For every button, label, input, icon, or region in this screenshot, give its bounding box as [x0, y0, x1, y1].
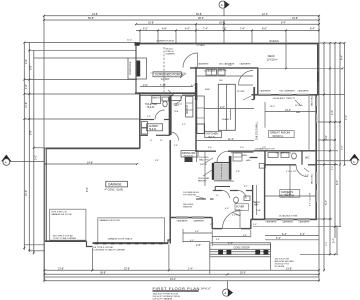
svg-text:CASEMENT: CASEMENT: [282, 221, 294, 224]
svg-text:24'-8": 24'-8": [92, 13, 98, 16]
svg-text:3'-4": 3'-4": [216, 239, 220, 241]
bedroom dim line y196: [265, 195, 316, 197]
left dimension line x24: [23, 43, 25, 251]
garage door opening band: [93, 242, 169, 244]
section marker bottom: circle and solid triangle: [223, 289, 230, 296]
mud wing north wall: [140, 94, 173, 96]
porch columns: [218, 250, 223, 255]
svg-text:8'-4": 8'-4": [310, 28, 315, 31]
svg-text:9'-0" CLG TYP: 9'-0" CLG TYP: [310, 192, 312, 206]
hall and foyer extra walls: [215, 186, 230, 188]
porch dim line y235.5: [265, 235, 319, 237]
svg-text:CASEMENT: CASEMENT: [299, 221, 311, 224]
wall corner block top-left of porch: [135, 42, 140, 45]
bench by porch wall: [152, 96, 161, 104]
bedroom dim line y127: [265, 111, 316, 113]
tick marks on dimension lines: [23, 15, 345, 282]
svg-text:1'-6": 1'-6": [253, 224, 257, 226]
svg-text:9' CLG TYP: 9' CLG TYP: [286, 171, 297, 173]
svg-text:4'-8": 4'-8": [25, 84, 28, 89]
svg-text:CASEMENT: CASEMENT: [193, 219, 205, 222]
svg-text:21'-8": 21'-8": [58, 268, 64, 271]
svg-text:2X6 STUD WALL: 2X6 STUD WALL: [256, 121, 259, 140]
svg-text:12'X10'+/-: 12'X10'+/-: [267, 57, 279, 61]
hall door arc: [217, 151, 228, 162]
porch interior dim y86.5: [140, 86, 193, 88]
exterior wall top: [135, 43, 319, 45]
porch door arc: [183, 53, 198, 68]
bottom dimension line 2: [44, 273, 319, 275]
svg-text:4'-8": 4'-8": [162, 28, 167, 31]
svg-text:RAILING: RAILING: [270, 40, 279, 43]
svg-text:TILE FL: TILE FL: [147, 107, 156, 109]
rotated right dim texts: [129, 55, 348, 246]
extra center dim lines: [183, 96, 309, 246]
svg-text:2'-8": 2'-8": [155, 160, 159, 162]
right extension line y43: [319, 42, 345, 44]
svg-text:GARAGE DR DOOR: GARAGE DR DOOR: [51, 213, 72, 216]
svg-text:TILE FL: TILE FL: [208, 136, 217, 138]
right extension line y66: [259, 68, 343, 70]
svg-text:1X4 AS-BUILT TRIM TYP: 1X4 AS-BUILT TRIM TYP: [273, 97, 296, 100]
svg-text:3'-6": 3'-6": [208, 147, 212, 149]
leader note lines center: [168, 73, 309, 216]
svg-text:8'-4": 8'-4": [281, 21, 286, 24]
dimension line top third: [136, 23, 319, 25]
svg-text:LINEN: LINEN: [241, 155, 247, 157]
dining built-in dark block: [185, 157, 193, 162]
toilet fixture: [162, 97, 169, 101]
dishwasher: [218, 70, 225, 76]
svg-text:7'-4": 7'-4": [203, 28, 208, 31]
svg-text:6'-4": 6'-4": [282, 233, 287, 236]
great room west opening wall: [253, 87, 255, 100]
svg-text:4'-0": 4'-0": [331, 110, 334, 115]
svg-text:FAN: FAN: [296, 111, 300, 114]
refrigerator: [197, 124, 205, 134]
hall upper wall segment: [250, 157, 258, 159]
mud wing west wall: [139, 93, 141, 148]
svg-text:7'-4": 7'-4": [240, 28, 245, 31]
extension line y79.5: [24, 79, 137, 81]
svg-text:5'-4": 5'-4": [325, 200, 328, 205]
svg-text:A: A: [5, 161, 7, 165]
left dimension line x29: [28, 43, 30, 253]
svg-text:2'-0": 2'-0": [143, 84, 148, 87]
label screened porch: [153, 72, 183, 81]
extension verticals top: [139, 30, 141, 43]
pantry lockers: [186, 96, 193, 117]
bottom dimension line 4: [44, 280, 319, 282]
bath fixtures strip: [268, 153, 278, 158]
stair up arrow dashed: [221, 164, 223, 179]
svg-text:30" REF: 30" REF: [237, 91, 245, 93]
svg-text:DW: DW: [219, 80, 222, 82]
room labels: [51, 40, 311, 268]
right dimension line x344.5: [344, 43, 346, 165]
label foyer: [235, 204, 249, 211]
foyer side dim line: [256, 185, 258, 215]
svg-text:DBL HUNG: DBL HUNG: [312, 95, 314, 106]
svg-text:WALL TYP: WALL TYP: [199, 159, 209, 162]
porch east wall: [195, 67, 197, 152]
porch roof dashed line: [163, 47, 165, 92]
garage door zone rect 1: [50, 209, 86, 240]
garage door band hatches: [95, 242, 162, 244]
garage door corner east: [168, 240, 171, 243]
svg-text:CASEMENT: CASEMENT: [260, 89, 272, 92]
stair treads: [214, 165, 229, 179]
right dimension line x340: [339, 43, 341, 227]
toilet laundry divider wall: [140, 119, 154, 121]
svg-text:CASEMENT: CASEMENT: [240, 63, 252, 66]
svg-text:28'-4": 28'-4": [198, 17, 204, 20]
right extension line y254.3: [300, 253, 338, 255]
svg-text:3'-0"X6'-8": 3'-0"X6'-8": [232, 215, 242, 217]
svg-text:2'-6": 2'-6": [147, 116, 151, 118]
svg-text:5'-2": 5'-2": [182, 124, 186, 126]
svg-text:6'-8": 6'-8": [342, 145, 344, 150]
right extension line y140: [318, 139, 336, 141]
kitchen west counters: [197, 96, 204, 134]
boots box: [171, 96, 181, 101]
right dimension line x335: [334, 43, 336, 238]
svg-text:8'-0": 8'-0": [336, 180, 339, 185]
svg-text:16'-4": 16'-4": [170, 278, 176, 281]
tiny dimension texts bottom: [58, 84, 305, 281]
front door wall: [212, 228, 222, 230]
porch screen door line: [150, 72, 185, 74]
svg-text:6'-0": 6'-0": [225, 208, 229, 210]
svg-text:2'-0": 2'-0": [326, 241, 328, 246]
label dining room: [181, 151, 198, 157]
svg-text:WOOD FL: WOOD FL: [184, 156, 195, 158]
svg-text:5'-8": 5'-8": [30, 65, 33, 70]
svg-text:WOOD FL: WOOD FL: [273, 136, 284, 138]
svg-text:5'-0": 5'-0": [240, 147, 244, 149]
kitchen counter along north: [197, 75, 253, 77]
svg-text:4'-0": 4'-0": [228, 242, 233, 245]
svg-text:TILE: TILE: [256, 210, 261, 212]
svg-text:HALL: HALL: [174, 104, 180, 107]
garage south step: [87, 241, 93, 246]
svg-text:SINK: SINK: [205, 89, 210, 91]
svg-text:56'-8": 56'-8": [196, 13, 202, 16]
svg-text:7'-4": 7'-4": [345, 115, 348, 120]
svg-text:10' CLG: 10' CLG: [295, 105, 303, 107]
garage top dim line y164: [46, 163, 137, 165]
stair bottom line: [214, 180, 231, 182]
dimension line top second: [44, 19, 319, 21]
label owners bedroom: [280, 190, 300, 198]
svg-text:9'-8": 9'-8": [30, 130, 33, 135]
east exterior wall great room and bedroom: [315, 95, 317, 220]
hall east closet walls: [264, 151, 266, 169]
kitchen sink: [206, 70, 217, 76]
front wall dining windows: [170, 217, 212, 219]
extension line left vertical at x44: [43, 16, 45, 281]
stoop outline: [210, 243, 271, 250]
garage south wall left: [45, 240, 87, 242]
svg-text:7'-0": 7'-0": [222, 28, 227, 31]
extension line y147.8 short: [34, 147, 45, 149]
compass symbol left: [1, 155, 11, 162]
svg-text:A: A: [224, 291, 226, 295]
svg-text:12'-4": 12'-4": [262, 13, 268, 16]
svg-text:GREAT ROOM: GREAT ROOM: [270, 131, 291, 135]
svg-text:4" CONC. SLAB: 4" CONC. SLAB: [105, 189, 123, 192]
bedroom north wall: [264, 164, 296, 166]
svg-text:TILE: TILE: [174, 111, 179, 113]
svg-text:14'-8": 14'-8": [25, 102, 28, 108]
great room north window wall: [252, 94, 319, 96]
kitchen dim line y140.5: [196, 140, 254, 142]
garage door zone rect 2: [98, 218, 165, 243]
closet under stair arc: [222, 191, 230, 199]
svg-text:6'-2": 6'-2": [191, 85, 195, 87]
svg-text:1'-4": 1'-4": [188, 268, 193, 271]
extension line y58: [34, 57, 128, 59]
svg-text:SCREENED PORCH: SCREENED PORCH: [155, 73, 183, 77]
section marker top: circle and solid triangle: [219, 1, 226, 8]
extension line y119: [24, 118, 139, 120]
extension line y94: [24, 93, 139, 95]
rotated left dim texts: [25, 59, 89, 196]
svg-text:21'-8": 21'-8": [286, 268, 292, 271]
right dimension line x330: [329, 43, 331, 254]
bedroom door arc: [296, 165, 308, 177]
great room north windows thin: [259, 94, 309, 95]
kitchen north window wall: [190, 67, 259, 69]
svg-text:KITCHEN: KITCHEN: [207, 132, 219, 136]
svg-text:2'-8": 2'-8": [236, 171, 240, 173]
svg-text:5'-4": 5'-4": [333, 238, 336, 243]
svg-text:1/4"=1'-0": 1/4"=1'-0": [201, 288, 211, 291]
svg-text:6'-4": 6'-4": [300, 233, 305, 236]
svg-text:GARAGE DOOR TRACK: GARAGE DOOR TRACK: [108, 237, 133, 240]
entry west wall: [211, 218, 213, 230]
dining foyer cased opening wall: [196, 198, 206, 200]
screened porch south wall: [135, 92, 197, 94]
svg-text:19'-8": 19'-8": [219, 21, 225, 24]
svg-text:2'-8": 2'-8": [25, 59, 28, 64]
bedroom west wall: [264, 165, 266, 220]
stoop steps: [210, 251, 271, 253]
garage entry door arc: [170, 132, 179, 141]
svg-text:SCREEN PORCH: SCREEN PORCH: [157, 41, 175, 43]
svg-text:18'-4": 18'-4": [270, 106, 275, 108]
svg-text:RM: RM: [254, 205, 257, 207]
great room south wall: [254, 150, 317, 152]
svg-text:TOILET RM: TOILET RM: [145, 104, 157, 106]
svg-text:A: A: [221, 3, 223, 7]
svg-text:1'-6": 1'-6": [210, 224, 214, 226]
svg-text:14'-8": 14'-8": [87, 161, 93, 164]
svg-text:7'-10": 7'-10": [160, 84, 166, 87]
right extension line y94.5: [313, 94, 345, 96]
svg-text:12'X10': 12'X10': [161, 77, 170, 81]
svg-text:9'-0": 9'-0": [86, 187, 89, 192]
svg-text:DBL HUNG: DBL HUNG: [312, 173, 314, 184]
right dimension line x324: [323, 43, 325, 270]
svg-text:9' PLATE: 9' PLATE: [197, 44, 206, 47]
kitchen door arc to deck: [239, 71, 254, 86]
post dim vertical: [336, 226, 338, 255]
stairs dark wall right: [229, 156, 232, 180]
powder fixtures: [234, 197, 239, 203]
fireplace: [128, 58, 147, 79]
powder room walls: [230, 190, 238, 192]
svg-text:A: A: [353, 160, 355, 164]
svg-text:3'-0": 3'-0": [35, 155, 38, 160]
svg-text:CASEMENT: CASEMENT: [198, 63, 210, 66]
wing east wall / garage east wall: [169, 95, 171, 132]
laundry appliances: [142, 122, 148, 128]
bottom dimension line 1: [44, 269, 319, 271]
right extension line y219: [317, 218, 333, 220]
left dimension line x34: [33, 50, 35, 254]
dimension line top overall: [44, 15, 319, 17]
svg-text:8'-0": 8'-0": [262, 28, 267, 31]
svg-text:4'-2": 4'-2": [244, 186, 248, 188]
svg-text:11'-0": 11'-0": [228, 138, 234, 141]
svg-text:GARAGE DR DOOR: GARAGE DR DOOR: [99, 219, 120, 222]
svg-text:BEDROOM: BEDROOM: [281, 193, 294, 197]
label laundry: [147, 124, 163, 131]
svg-text:22'-0": 22'-0": [127, 40, 132, 42]
svg-text:HALL: HALL: [246, 159, 252, 162]
screened porch west wall: [135, 44, 137, 94]
porch dim line y240: [265, 239, 319, 241]
svg-text:6'X8'+/-: 6'X8'+/-: [236, 209, 244, 211]
svg-text:20'-0": 20'-0": [240, 272, 246, 275]
svg-text:22'-8": 22'-8": [124, 268, 130, 271]
svg-text:CONTINUE TO EACH CORNER: CONTINUE TO EACH CORNER: [93, 249, 125, 252]
wic wall: [301, 151, 303, 165]
svg-text:24'-0": 24'-0": [25, 190, 28, 196]
svg-text:16'-8": 16'-8": [148, 21, 154, 24]
svg-text:WIC: WIC: [305, 158, 310, 160]
svg-text:LAUNDRY: LAUNDRY: [148, 125, 159, 128]
right extension line y122: [318, 121, 341, 123]
extension verticals bottom: [43, 242, 45, 281]
svg-text:GARAGE: GARAGE: [108, 183, 122, 187]
laundry south wall: [140, 134, 148, 136]
svg-text:16R UP: 16R UP: [200, 164, 208, 166]
right extension line y226.7: [317, 226, 342, 228]
extension line garage corner left b: [29, 250, 45, 252]
svg-text:CASEMENT: CASEMENT: [298, 89, 310, 92]
svg-text:DBL CASEMENT: DBL CASEMENT: [280, 89, 296, 92]
extension line right vertical at x319: [318, 16, 320, 281]
entry east wall: [250, 219, 252, 229]
east wall windows thin: [316, 97, 317, 202]
svg-text:36'-8": 36'-8": [100, 272, 106, 275]
garage west wall: [44, 148, 46, 242]
svg-text:DINING RM: DINING RM: [182, 152, 195, 155]
svg-text:OWNER'S: OWNER'S: [281, 190, 293, 194]
svg-text:6'-2": 6'-2": [143, 28, 148, 31]
label great room: [269, 130, 295, 137]
linen shelves right of stairs: [233, 153, 242, 161]
svg-text:16'-8": 16'-8": [292, 17, 298, 20]
svg-text:TYP THIS RM: TYP THIS RM: [183, 195, 196, 197]
svg-text:9'-8": 9'-8": [325, 135, 328, 140]
bottom dimension line 3: [44, 276, 319, 278]
svg-text:PANTRY: PANTRY: [186, 104, 189, 114]
title block: [153, 286, 211, 300]
kitchen dim line y108.5: [204, 108, 254, 110]
svg-text:PAINTED: PAINTED: [198, 180, 207, 183]
front door swing arc: [223, 211, 241, 228]
stair landing wall: [214, 162, 229, 164]
deck railing east wall: [317, 43, 319, 95]
svg-text:BENCH: BENCH: [153, 98, 161, 100]
svg-text:CASEMENT: CASEMENT: [177, 219, 189, 222]
svg-text:2'-8": 2'-8": [174, 145, 178, 147]
svg-text:6'-4": 6'-4": [276, 237, 281, 240]
hall north wall: [196, 150, 216, 152]
svg-text:FOYER: FOYER: [236, 206, 245, 209]
deck step wall: [257, 68, 259, 95]
svg-text:DBL CASEMENT: DBL CASEMENT: [219, 63, 235, 66]
label kitchen: [205, 131, 222, 137]
svg-text:2'-8": 2'-8": [196, 244, 201, 247]
svg-text:3'-0": 3'-0": [332, 165, 334, 170]
right extension line y164.5: [317, 164, 338, 166]
kitchen windows thin: [197, 67, 253, 68]
kitchen island: [218, 84, 235, 130]
svg-text:1X4 AS-BUILT TRIM: 1X4 AS-BUILT TRIM: [279, 215, 298, 218]
svg-text:WINDOW: WINDOW: [183, 207, 192, 209]
svg-text:3'-0": 3'-0": [305, 175, 309, 177]
tiny dimension texts top: [88, 13, 315, 31]
svg-text:1X4 AS-BUILT TRIM TYP: 1X4 AS-BUILT TRIM TYP: [204, 70, 227, 73]
svg-text:CONC STOOP: CONC STOOP: [234, 246, 250, 249]
svg-text:16'-0": 16'-0": [285, 109, 291, 112]
extension line y42.5: [24, 42, 136, 44]
garage north wall: [46, 147, 140, 149]
stairs dark wall left: [212, 163, 214, 180]
svg-text:2'-0": 2'-0": [262, 147, 266, 149]
svg-text:8'-4": 8'-4": [341, 55, 344, 60]
powder door arc: [238, 191, 246, 199]
svg-text:SCREEN: SCREEN: [166, 54, 176, 56]
svg-text:56'-8": 56'-8": [88, 17, 94, 20]
svg-text:1X4 BASE MLDG: 1X4 BASE MLDG: [276, 152, 292, 155]
svg-text:DECK: DECK: [268, 54, 275, 58]
toilet room door arc: [155, 110, 165, 120]
svg-text:2'-0": 2'-0": [220, 106, 225, 109]
svg-text:CONT TO EA CORNER: CONT TO EA CORNER: [53, 237, 77, 240]
bedroom front wall with windows: [251, 218, 317, 220]
svg-text:FIREPLACE: FIREPLACE: [129, 61, 132, 75]
svg-text:CASEMENT: CASEMENT: [266, 221, 278, 224]
svg-text:4'-0": 4'-0": [185, 28, 190, 31]
svg-text:W/ HDWE: W/ HDWE: [275, 266, 286, 268]
svg-text:ISLAND: ISLAND: [222, 118, 230, 121]
extension line garage corner left a: [24, 244, 45, 246]
label garage: [106, 181, 128, 187]
dimension line top segmented: [136, 29, 319, 31]
compass symbol right: [349, 154, 359, 161]
svg-text:TILE FL: TILE FL: [149, 129, 158, 131]
roof overhang line south: [253, 226, 330, 228]
extension line y50.3: [29, 49, 136, 51]
svg-text:RAILING: RAILING: [317, 72, 320, 82]
